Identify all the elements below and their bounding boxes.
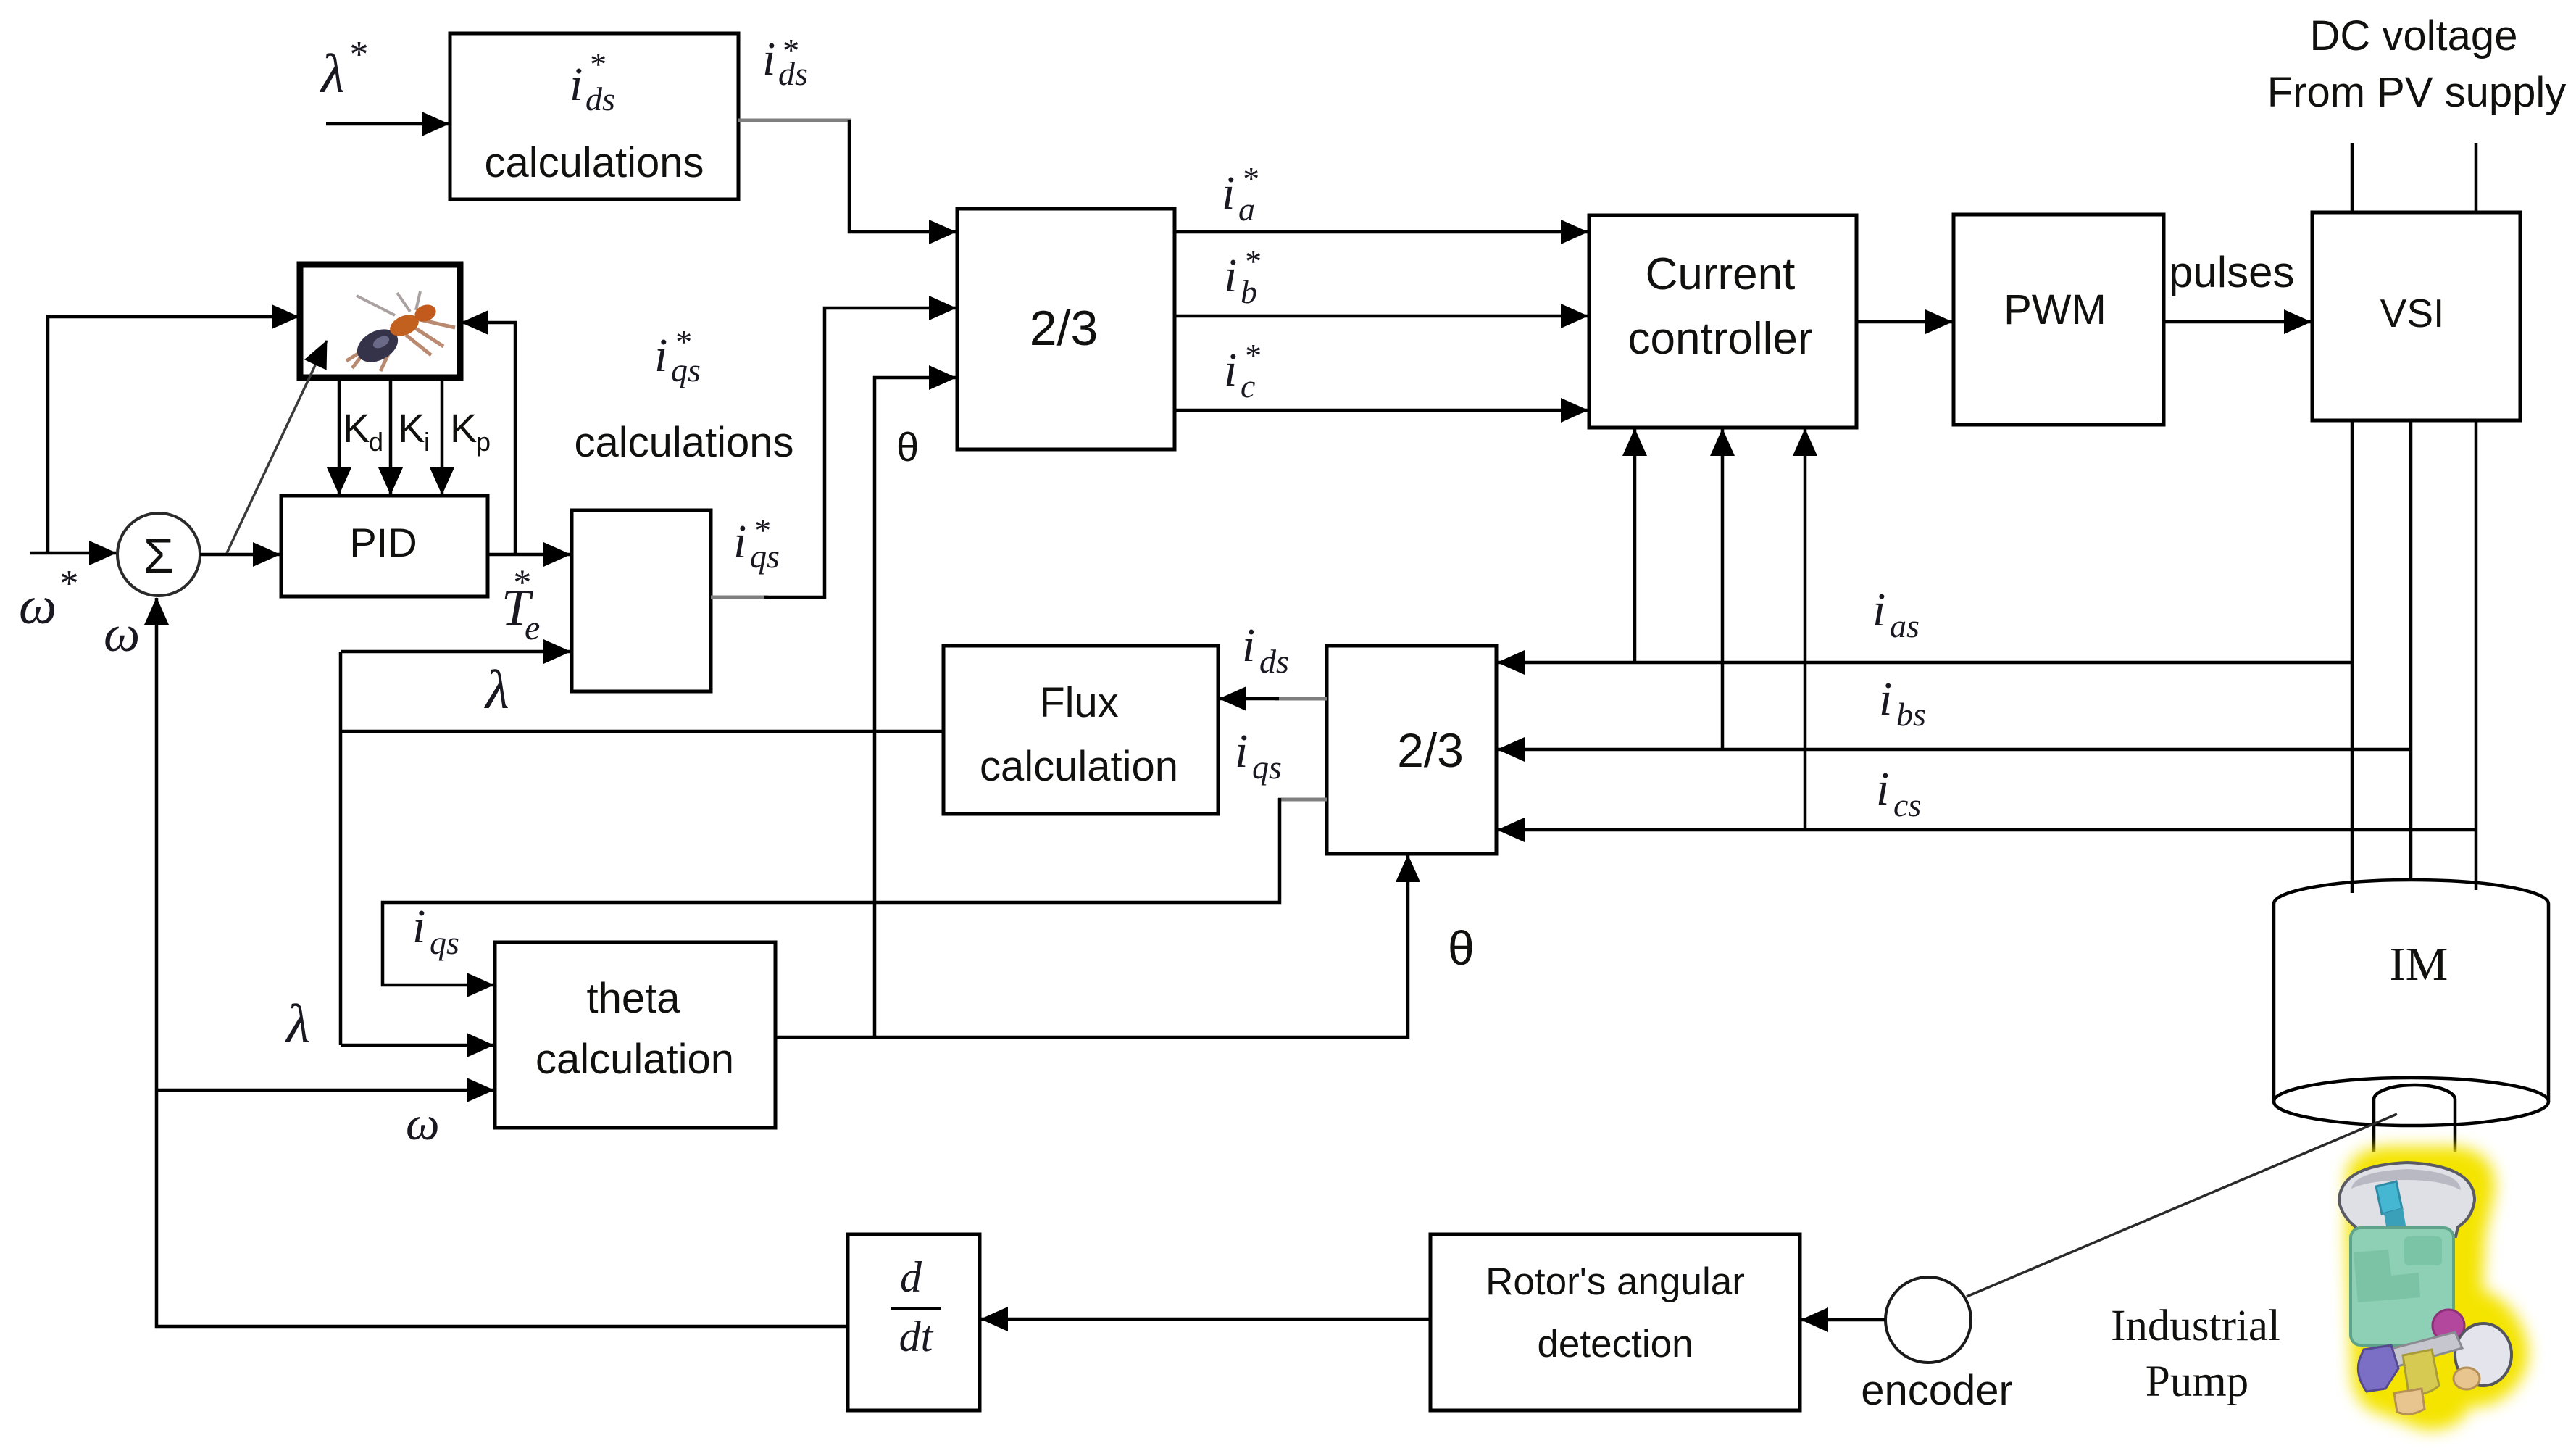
wire iqs-star up to 2/3 second input [764, 308, 956, 597]
svg-text:i: i [1235, 725, 1248, 778]
svg-text:calculations: calculations [484, 139, 704, 186]
wire ids-star: box output stub (gray) [738, 119, 851, 122]
IM shaft stub [2374, 1085, 2455, 1152]
label iqs-star floating title [654, 323, 701, 388]
svg-text:i: i [412, 900, 425, 953]
label ids-star on wire [762, 32, 808, 92]
svg-text:Σ: Σ [143, 528, 174, 583]
wire ias branch up to current-controller [1633, 429, 1637, 662]
wire summer output to PID [200, 553, 280, 557]
block 2/3 transform U10 [1327, 646, 1496, 854]
induction motor IM cylinder [2274, 880, 2548, 1126]
label iqs-star on wire [733, 512, 780, 575]
svg-text:λ: λ [285, 994, 310, 1055]
svg-text:dt: dt [899, 1313, 934, 1360]
label ids measured [1242, 619, 1289, 680]
svg-text:encoder: encoder [1861, 1367, 2013, 1414]
svg-text:i: i [762, 33, 775, 86]
label ia-star [1222, 160, 1258, 228]
wire diagonal error line to ant block [227, 341, 327, 553]
wire ib-star row [1175, 315, 1588, 318]
block rotor-angular-detection U13 [1430, 1234, 1800, 1410]
svg-text:K: K [450, 405, 477, 451]
wire ics feedback row [1498, 828, 2476, 832]
svg-text:i: i [1222, 167, 1235, 220]
wire Kd gain line [338, 378, 341, 494]
svg-text:calculation: calculation [980, 743, 1178, 790]
wire iqs-star output stub (gray) [711, 596, 768, 599]
svg-text:b: b [1241, 273, 1257, 310]
svg-text:theta: theta [587, 975, 681, 1022]
svg-text:λ: λ [320, 43, 345, 104]
svg-text:i: i [1224, 249, 1237, 302]
svg-text:i: i [1224, 344, 1237, 396]
wire ic-star row [1175, 409, 1588, 412]
svg-text:ω: ω [104, 606, 140, 662]
svg-text:PWM: PWM [2004, 286, 2106, 333]
svg-text:qs: qs [750, 538, 780, 575]
wire Kp gain line [441, 378, 444, 494]
svg-text:calculation: calculation [535, 1036, 734, 1083]
svg-text:ω: ω [19, 576, 57, 636]
label ias [1872, 583, 1920, 644]
block PWM U7 [1954, 215, 2164, 425]
svg-text:K: K [343, 405, 370, 451]
block VSI U8 [2312, 212, 2520, 420]
svg-text:a: a [1238, 191, 1255, 228]
svg-text:i: i [424, 427, 430, 457]
svg-text:ds: ds [585, 80, 615, 117]
wire iqs measured long path to theta-calculation [383, 798, 1280, 985]
svg-text:Industrial: Industrial [2111, 1302, 2280, 1350]
wire PID output branch up to ant block right input [462, 323, 515, 554]
label ics [1876, 762, 1921, 823]
svg-text:Rotor's angular: Rotor's angular [1485, 1260, 1745, 1303]
wire PID output to iqs-calculations (Te*) [488, 553, 570, 557]
block iqs-calculations U4 [572, 510, 711, 691]
block current-controller U6 [1589, 215, 1856, 428]
svg-text:i: i [1879, 673, 1892, 725]
label Kp [450, 405, 491, 457]
svg-text:qs: qs [671, 352, 701, 388]
block ACO ant-tuner U2 [300, 265, 460, 378]
wire lambda branch into theta-calculation [341, 1044, 493, 1047]
label Kd [343, 405, 383, 457]
wire ias feedback row [1498, 661, 2352, 665]
wire theta vertical to 2/3 third input [875, 378, 956, 1037]
encoder circle S2 [1885, 1277, 1971, 1363]
wire ids-star: vertical and into 2/3 [849, 120, 956, 232]
svg-text:ds: ds [1259, 643, 1289, 680]
wire VSI phase b down to IM [2409, 420, 2413, 880]
svg-text:Current: Current [1646, 249, 1796, 299]
block 2/3 transform U5 [957, 209, 1175, 449]
wire current-controller to PWM [1856, 320, 1952, 324]
wire ids measured into flux-calculation (gray) [1275, 697, 1327, 701]
svg-text:pulses: pulses [2169, 248, 2294, 296]
label Ki [398, 405, 430, 457]
svg-text:as: as [1890, 607, 1920, 644]
label ids-star inside box [570, 46, 615, 117]
block flux-calculation U9 [943, 646, 1218, 814]
industrial pump artwork [2339, 1155, 2519, 1421]
wire lambda-star input arrow [326, 122, 449, 126]
svg-text:d: d [369, 427, 383, 457]
svg-text:i: i [1242, 619, 1255, 672]
svg-text:i: i [1876, 762, 1889, 815]
svg-text:i: i [570, 58, 583, 111]
wire omega branch into theta-calculation [157, 1089, 493, 1092]
block PID U3 [281, 496, 488, 596]
block theta-calculation U11 [495, 942, 775, 1128]
wire VSI phase c down to IM [2475, 420, 2478, 890]
wire ids measured arrow [1220, 697, 1279, 701]
svg-text:2/3: 2/3 [1397, 723, 1464, 777]
svg-text:calculations: calculations [574, 419, 793, 466]
wire iqs measured stub (gray) [1278, 798, 1327, 802]
svg-text:detection: detection [1537, 1323, 1693, 1365]
wire DC supply line right [2475, 143, 2478, 212]
svg-text:ds: ds [778, 55, 808, 92]
wire ia-star row [1175, 230, 1588, 234]
svg-text:θ: θ [896, 424, 919, 470]
wire encoder to rotor-detection [1801, 1318, 1885, 1322]
wire rotor-detection to d/dt [981, 1318, 1430, 1321]
svg-text:2/3: 2/3 [1030, 301, 1099, 356]
label lambda-star [320, 34, 367, 104]
wire Ki gain line [389, 378, 393, 494]
block ids-calculations U1 [450, 33, 738, 199]
wire VSI phase a down to IM [2351, 420, 2354, 893]
wire PWM pulses to VSI [2164, 320, 2311, 324]
wire lambda from flux-calculation output [339, 730, 943, 733]
wire omega feedback trunk [157, 598, 848, 1326]
wire omega-star input to summer [30, 552, 116, 555]
svg-text:c: c [1241, 367, 1255, 404]
svg-text:qs: qs [1252, 749, 1282, 786]
label ibs [1879, 673, 1926, 733]
label iqs (near theta box) [412, 900, 459, 961]
wire ics branch up to current-controller [1804, 429, 1807, 830]
svg-text:PID: PID [349, 520, 417, 565]
svg-text:From PV supply: From PV supply [2267, 69, 2567, 116]
svg-text:K: K [398, 405, 425, 451]
wire speed-ref feedback to ant block [48, 317, 299, 553]
svg-text:*: * [58, 563, 77, 604]
label Te-star [501, 562, 540, 647]
svg-text:i: i [733, 515, 746, 568]
summing junction S1 [117, 513, 200, 596]
svg-text:IM: IM [2390, 938, 2448, 991]
label iqs measured (near 2/3) [1235, 725, 1282, 786]
svg-text:ω: ω [406, 1097, 440, 1150]
wire DC supply line left [2351, 143, 2354, 212]
label omega-star [19, 563, 77, 636]
svg-text:p: p [476, 427, 491, 457]
svg-text:*: * [588, 46, 605, 83]
svg-text:bs: bs [1896, 696, 1926, 733]
svg-text:*: * [512, 562, 530, 602]
svg-text:cs: cs [1893, 786, 1921, 823]
svg-text:i: i [1872, 583, 1885, 636]
svg-text:qs: qs [430, 924, 459, 961]
svg-text:i: i [654, 329, 667, 382]
wire ibs feedback row [1498, 748, 2411, 752]
wire shaft diagonal to encoder [1967, 1114, 2397, 1297]
svg-text:θ: θ [1448, 921, 1475, 975]
svg-text:λ: λ [484, 660, 509, 720]
svg-text:controller: controller [1628, 314, 1813, 364]
svg-text:e: e [525, 609, 540, 647]
svg-text:d: d [900, 1253, 922, 1301]
svg-text:VSI: VSI [2380, 291, 2445, 336]
svg-text:Pump: Pump [2146, 1358, 2248, 1406]
wire ibs branch up to current-controller [1721, 429, 1725, 749]
svg-text:Flux: Flux [1039, 679, 1119, 726]
wire theta output to bottom 2/3 [775, 855, 1408, 1037]
svg-text:*: * [348, 34, 367, 75]
label ic-star [1224, 337, 1260, 404]
label ib-star [1224, 243, 1260, 310]
wire lambda branch into iqs-calculations [341, 650, 570, 654]
block d/dt U12 [848, 1234, 980, 1410]
wire lambda trunk vertical [339, 652, 343, 1045]
svg-text:DC voltage: DC voltage [2310, 12, 2518, 59]
ant icon inside ACO block [346, 291, 455, 371]
